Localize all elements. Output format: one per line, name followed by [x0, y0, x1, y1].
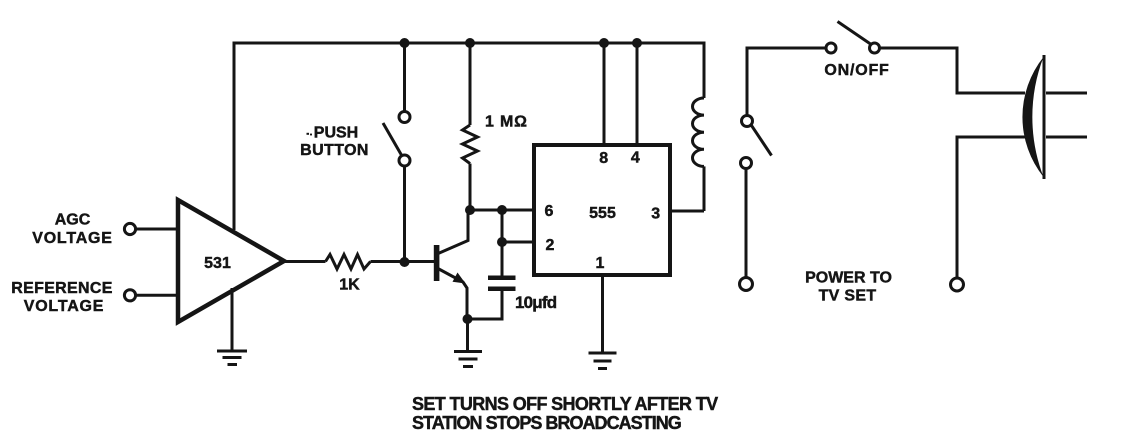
- switch S3 ON/OFF left contact: [826, 43, 836, 53]
- svg-text:531: 531: [204, 255, 231, 272]
- node junction collector / 1 Mohm / pin 6 line: [465, 205, 475, 215]
- switch S2 relay contact top: [742, 116, 753, 127]
- node power terminal left: [740, 278, 753, 291]
- ground op-amp: [217, 351, 247, 365]
- wire emitter junction to ground: [466, 319, 469, 350]
- wire op-amp ground stem: [231, 288, 234, 350]
- svg-text:555: 555: [589, 205, 616, 222]
- switch S2 relay contact arm: [752, 126, 772, 156]
- wire pin 1 to ground: [601, 275, 604, 352]
- svg-text:AGC: AGC: [55, 212, 91, 229]
- wire left drop from rail to op-amp top edge: [233, 42, 236, 231]
- svg-text:ON/OFF: ON/OFF: [824, 62, 889, 79]
- wire rail to 1 Mohm resistor: [469, 43, 472, 125]
- plug top prong: [1046, 92, 1087, 95]
- op-amp U1 531 triangle: [178, 200, 284, 322]
- speck dots before PUSH: [307, 133, 310, 135]
- capacitor C1 top plate: [488, 276, 516, 281]
- wire pin 6 line: [470, 209, 534, 212]
- svg-text:TV SET: TV SET: [819, 288, 877, 305]
- node junction rail / pin 4: [632, 38, 642, 48]
- wire rail to pin 8: [603, 43, 606, 145]
- svg-text:1K: 1K: [339, 277, 360, 294]
- wire AGC input: [136, 228, 178, 231]
- node junction push-button line and base wire: [400, 257, 410, 267]
- wire coil bottom to pin 3 line: [703, 166, 706, 211]
- resistor R2 1 Mohm: [463, 125, 478, 164]
- node junction rail / pin 8: [599, 38, 609, 48]
- wire plug bottom prong to power terminal right: [957, 137, 1025, 278]
- wire rail to push button top: [403, 43, 406, 112]
- node junction emitter / capacitor / ground: [463, 314, 473, 324]
- node junction pin 2 tee: [497, 237, 507, 247]
- wire pin 3 to relay coil: [670, 210, 704, 213]
- capacitor C1 bottom plate: [488, 287, 516, 292]
- wire pin 2 line: [502, 241, 534, 244]
- svg-text:POWER TO: POWER TO: [805, 270, 892, 287]
- svg-text:VOLTAGE: VOLTAGE: [24, 298, 105, 315]
- node junction rail / 1 Mohm resistor: [465, 38, 475, 48]
- node junction capacitor branch on pin 6 line: [497, 205, 507, 215]
- wire top supply rail: [234, 42, 704, 45]
- node power terminal right: [951, 278, 964, 291]
- wire rail to pin 4: [636, 43, 639, 145]
- svg-text:STATION STOPS BROADCASTING: STATION STOPS BROADCASTING: [412, 413, 681, 433]
- wire relay contact to power terminal: [745, 169, 748, 278]
- ground transistor emitter: [454, 352, 482, 367]
- plug body crescent: [1022, 57, 1043, 177]
- switch S3 ON/OFF arm: [838, 22, 871, 45]
- node REFERENCE input terminal: [124, 290, 135, 301]
- transistor Q1 base bar: [434, 245, 440, 281]
- IC U2 555 timer box: [534, 145, 670, 275]
- transistor Q1 emitter: [437, 268, 467, 319]
- resistor R1 1K: [326, 255, 371, 270]
- transistor Q1 emitter arrow: [453, 273, 466, 284]
- wire capacitor bottom to emitter junction: [467, 291, 503, 319]
- ground 555 pin 1: [589, 353, 617, 369]
- transistor Q1 collector: [437, 210, 468, 254]
- switch S3 ON/OFF right contact: [870, 43, 880, 53]
- node AGC input terminal: [124, 223, 135, 234]
- svg-text:1: 1: [596, 255, 605, 272]
- node junction rail / push button: [400, 38, 410, 48]
- wire push button bottom to base line: [403, 166, 406, 262]
- wire REFERENCE input: [136, 294, 178, 297]
- svg-text:10μfd: 10μfd: [515, 293, 557, 312]
- svg-text:8: 8: [599, 150, 608, 167]
- plug bottom prong: [1046, 136, 1087, 139]
- svg-text:REFERENCE: REFERENCE: [11, 280, 112, 297]
- svg-text:VOLTAGE: VOLTAGE: [32, 230, 113, 247]
- switch S1 push button bottom contact: [399, 155, 410, 166]
- svg-text:3: 3: [651, 206, 660, 223]
- svg-text:6: 6: [545, 203, 554, 220]
- svg-text:1 MΩ: 1 MΩ: [485, 114, 528, 131]
- svg-text:BUTTON: BUTTON: [300, 142, 369, 159]
- inductor L1 relay coil: [693, 98, 705, 166]
- switch S1 push button arm: [383, 123, 402, 156]
- wire capacitor branch vertical: [501, 210, 504, 276]
- svg-text:SET TURNS OFF SHORTLY AFTER TV: SET TURNS OFF SHORTLY AFTER TV: [412, 394, 718, 414]
- svg-text:2: 2: [546, 237, 555, 254]
- wire on/off to plug top prong: [880, 48, 1026, 93]
- wire 1 Mohm resistor to pin6 node: [469, 164, 472, 210]
- svg-text:PUSH: PUSH: [314, 125, 358, 142]
- switch S1 push button top contact: [399, 112, 410, 123]
- wire rail right end down to coil: [703, 42, 706, 99]
- wire relay contact top run to on/off switch: [747, 48, 826, 116]
- svg-text:4: 4: [631, 150, 640, 167]
- plug body flat edge: [1043, 55, 1046, 179]
- switch S2 relay contact bottom: [741, 158, 752, 169]
- wire op-amp output to base: [284, 260, 434, 263]
